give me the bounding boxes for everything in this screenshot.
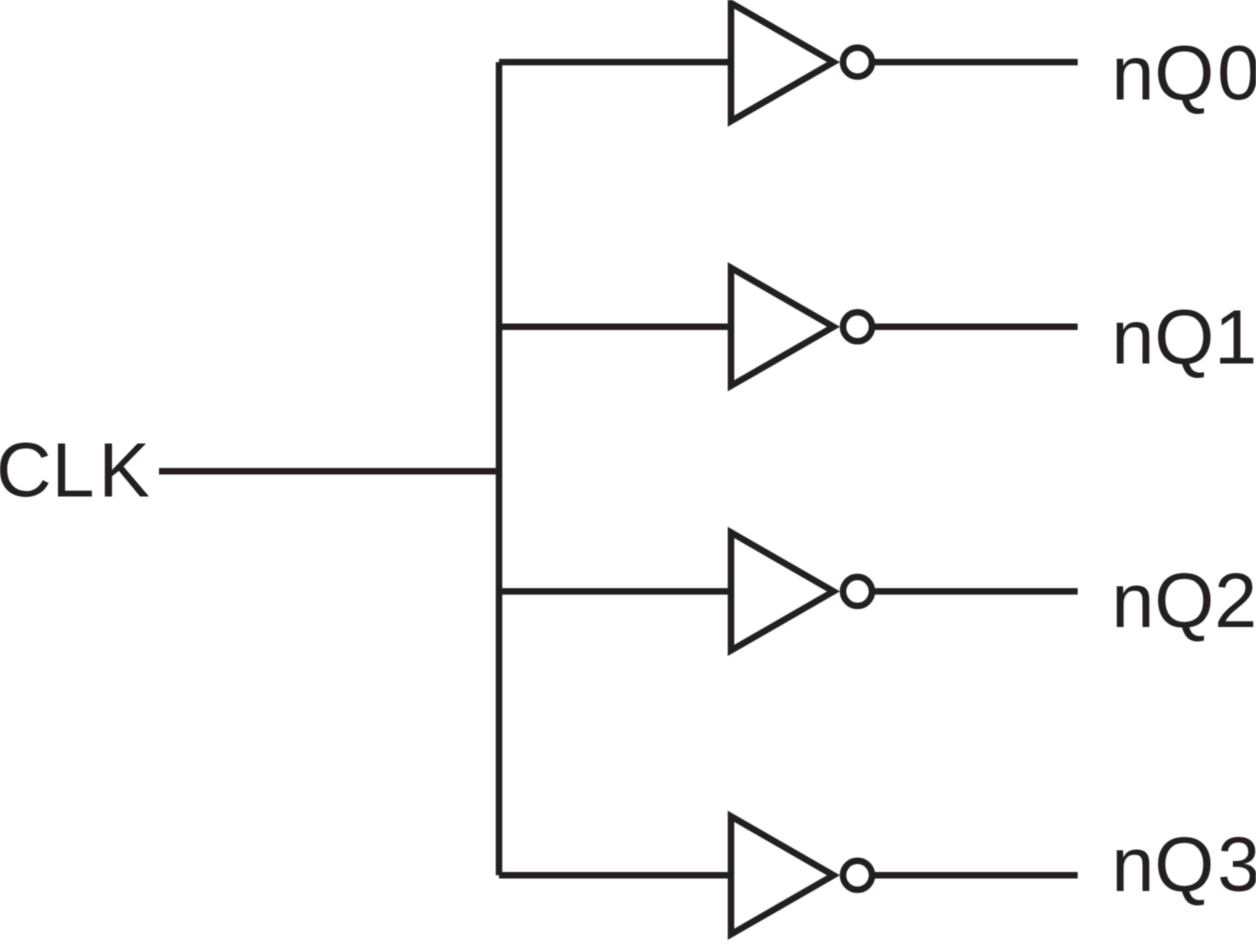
- wire U4 output: [875, 872, 1078, 879]
- inverter U2 bubble: [843, 312, 872, 341]
- svg-text:nQ3: nQ3: [1112, 822, 1256, 908]
- wire U3 output: [875, 588, 1078, 595]
- inverter U2 triangle: [731, 268, 834, 386]
- wire U2 output: [875, 324, 1078, 331]
- wire branch to U4 input: [499, 872, 730, 879]
- inverter U3 bubble: [843, 577, 872, 606]
- wire vertical bus: [496, 62, 503, 875]
- wire branch to U1 input: [499, 59, 730, 66]
- svg-text:CLK: CLK: [0, 427, 150, 513]
- inverter U1 triangle: [731, 3, 834, 121]
- svg-text:nQ0: nQ0: [1112, 31, 1256, 117]
- inverter U4 triangle: [731, 816, 834, 934]
- node CLK input wire: [159, 468, 499, 475]
- wire U1 output: [875, 59, 1078, 66]
- svg-text:nQ2: nQ2: [1112, 558, 1256, 644]
- wire branch to U3 input: [499, 588, 730, 595]
- inverter U4 bubble: [843, 861, 872, 890]
- inverter U3 triangle: [731, 532, 834, 650]
- inverter U1 bubble: [843, 48, 872, 77]
- wire branch to U2 input: [499, 324, 730, 331]
- svg-text:nQ1: nQ1: [1112, 295, 1256, 381]
